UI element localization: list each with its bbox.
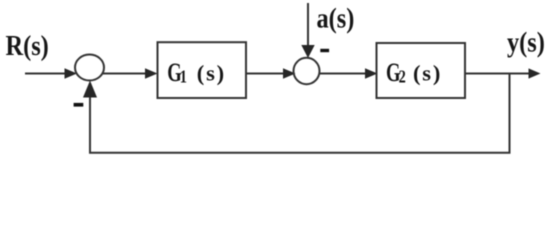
wire: G2 output to y(s)	[465, 68, 541, 78]
minus sign at S1 feedback input	[74, 103, 84, 107]
label G1 (s) inside block G1	[167, 58, 226, 87]
svg-text:2: 2	[399, 66, 406, 87]
label G2 (s) inside block G2	[386, 58, 442, 87]
wire: S1 to block G1	[102, 68, 158, 78]
svg-text:R(s): R(s)	[6, 29, 49, 61]
wire: feedback from output node down, left and up into S1	[83, 74, 510, 153]
block G2	[377, 43, 466, 98]
minus sign at S2 a(s) input	[320, 49, 329, 52]
svg-text:a(s): a(s)	[317, 2, 355, 34]
wire: G1 to summer S2	[247, 68, 296, 78]
svg-text:1: 1	[180, 66, 187, 87]
wire: R(s) input to summer S1	[25, 68, 77, 78]
svg-text:(s): (s)	[413, 60, 442, 85]
wire: a(s) disturbance into S2	[301, 3, 314, 58]
label a(s)	[317, 2, 355, 34]
wire: S2 to block G2	[320, 68, 378, 78]
summing junction S1	[75, 55, 104, 81]
summing junction S2	[294, 58, 320, 84]
svg-text:y(s): y(s)	[507, 26, 545, 58]
svg-text:(s): (s)	[197, 60, 226, 85]
label y(s)	[507, 26, 545, 58]
label R(s)	[6, 29, 49, 61]
block G1	[158, 42, 247, 98]
